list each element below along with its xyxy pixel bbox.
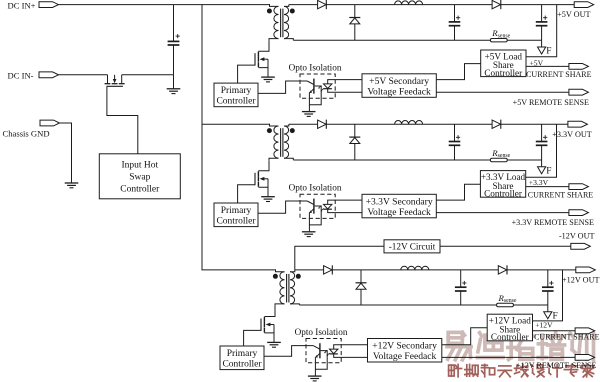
resistor Rsense +5V (490, 28, 510, 42)
label +5V current share volts (530, 58, 544, 67)
capacitor C21 filter (449, 124, 461, 160)
ground Q1 source (261, 77, 275, 82)
svg-text:Primary: Primary (227, 349, 258, 359)
wire +12V bottom rail (299, 304, 548, 306)
capacitor C_in input bulk cap (168, 5, 180, 75)
ground opto U1b emitter (302, 112, 316, 117)
wire +5V out to load share (526, 5, 557, 57)
wire feedback to load share +12V (442, 328, 487, 345)
svg-text:+3.3V Secondary: +3.3V Secondary (366, 196, 433, 207)
label +12V REMOTE SENSE (516, 361, 596, 370)
block +5V secondary voltage feedback (362, 74, 436, 98)
svg-text:CURRENT SHARE: CURRENT SHARE (534, 332, 600, 341)
connector -12V OUT (571, 243, 591, 249)
watermark Yi Di Tuo training text (decor recreated as shapes) (447, 332, 593, 377)
capacitor C32 output (542, 270, 554, 305)
wire +5V current share (526, 65, 569, 67)
svg-text:+12V REMOTE SENSE: +12V REMOTE SENSE (516, 361, 596, 370)
diode D31 rectifier (324, 265, 333, 274)
label DC IN- (8, 71, 34, 81)
transistor Q1 primary switch (255, 41, 269, 78)
diode D23 ORing (492, 120, 501, 129)
wire +3.3V bottom rail (293, 159, 541, 161)
svg-text:Controller: Controller (120, 185, 160, 195)
wire +3.3V secondary top rail (289, 123, 568, 125)
wire +5V secondary top rail (289, 4, 574, 6)
diode D13 ORing (492, 0, 501, 9)
diode D12 freewheel (349, 5, 360, 41)
label +3.3V OUT (552, 130, 592, 139)
diode D21 rectifier (318, 120, 327, 129)
svg-text:CURRENT SHARE: CURRENT SHARE (528, 191, 594, 200)
inductor L2 output filter (395, 121, 423, 125)
capacitor C31 filter (455, 270, 467, 305)
label CURRENT SHARE +12V (534, 332, 600, 341)
svg-text:Controller: Controller (484, 189, 522, 199)
ground input return (167, 89, 181, 94)
label +3.3V current share volts (529, 178, 549, 187)
wire +3.3V remote sense (436, 212, 569, 214)
transistor Q2 primary switch (255, 160, 269, 197)
label +3.3V REMOTE SENSE (512, 218, 594, 227)
svg-text:Primary: Primary (221, 206, 252, 216)
label CURRENT SHARE +5V (526, 70, 592, 79)
wire T3 secondary tap to -12V circuit (295, 246, 384, 270)
svg-text:+5V Secondary: +5V Secondary (369, 76, 429, 87)
label CURRENT SHARE +3.3V (528, 191, 594, 200)
wire Q1 gate (238, 65, 255, 83)
wire Q2 gate (238, 185, 255, 203)
svg-text:F: F (546, 167, 551, 177)
svg-text:Primary: Primary (221, 86, 252, 96)
wire +5V bottom rail (293, 39, 541, 41)
svg-text:Opto Isolation: Opto Isolation (289, 62, 342, 72)
label +5V OUT (557, 10, 590, 19)
node F feedback point +12V (544, 305, 558, 322)
label DC IN+ (8, 0, 36, 10)
capacitor C11 filter (449, 5, 461, 41)
ground chassis (65, 183, 79, 188)
svg-text:Voltage Feedack: Voltage Feedack (373, 351, 437, 362)
wire chassis gnd (60, 123, 72, 183)
svg-text:+5V OUT: +5V OUT (557, 10, 590, 19)
wire Q4 gate to hot swap controller (107, 86, 138, 154)
svg-text:Controller: Controller (491, 332, 529, 342)
label opto isolation +12V (295, 327, 348, 337)
svg-text:Chassis GND: Chassis GND (3, 129, 50, 139)
svg-text:+5V: +5V (530, 58, 544, 67)
wire Q4 drain to input cap node (122, 74, 174, 76)
wire Q3 gate (244, 330, 261, 346)
diode D11 rectifier (318, 0, 327, 9)
resistor Rsense +12V (497, 293, 517, 307)
block +5V load share controller (481, 50, 526, 78)
transformer T1 (267, 5, 295, 41)
block +12V load share controller (487, 314, 532, 342)
svg-text:Input Hot: Input Hot (121, 161, 158, 171)
connector +5V current share (569, 64, 589, 70)
opto-isolator U3b phototransistor (313, 343, 327, 376)
opto-isolator U2b phototransistor (307, 199, 321, 232)
svg-text:Controller: Controller (222, 360, 262, 370)
opto-isolator U1b dashed box (300, 74, 335, 98)
node F feedback point +3.3V (538, 160, 552, 177)
wire DC IN+ bus vertical (202, 5, 276, 270)
diode D32 freewheel (356, 270, 367, 305)
connector +5V remote sense (569, 89, 589, 95)
svg-text:DC IN+: DC IN+ (8, 0, 36, 10)
capacitor C22 output (536, 124, 548, 160)
svg-text:-12V Circuit: -12V Circuit (389, 241, 436, 251)
svg-text:DC IN-: DC IN- (8, 71, 34, 81)
ground opto U2b emitter (302, 232, 316, 237)
svg-text:+5V REMOTE SENSE: +5V REMOTE SENSE (513, 98, 589, 107)
svg-text:+12V Secondary: +12V Secondary (372, 341, 437, 352)
connector +3.3V OUT (568, 121, 588, 127)
svg-text:Opto Isolation: Opto Isolation (295, 327, 348, 337)
block +12V secondary voltage feedback (368, 339, 442, 363)
block -12V circuit (384, 240, 440, 253)
label +5V REMOTE SENSE (513, 98, 589, 107)
diode D22 freewheel (349, 124, 360, 160)
wire DC IN- to Q4 source (59, 74, 108, 76)
wire DC IN+ rail (59, 4, 271, 6)
connector Chassis GND (40, 120, 60, 126)
opto-isolator U1b phototransistor (307, 79, 321, 112)
svg-text:F: F (546, 47, 551, 57)
resistor Rsense +3.3V (490, 148, 510, 162)
svg-text:Controller: Controller (216, 97, 256, 107)
capacitor C12 output (536, 5, 548, 41)
connector +12V OUT (576, 267, 596, 273)
svg-text:Opto Isolation: Opto Isolation (289, 183, 342, 193)
label +12V OUT (562, 276, 599, 285)
svg-text:Voltage Feedack: Voltage Feedack (367, 207, 431, 218)
label Chassis GND (3, 129, 50, 139)
inductor L1 output filter (395, 1, 423, 5)
ground Q3 source (267, 342, 281, 347)
wire +3.3V current share (526, 186, 569, 188)
label -12V OUT (559, 232, 595, 241)
svg-text:+3.3V: +3.3V (529, 178, 549, 187)
inductor L3 output filter (401, 266, 429, 270)
svg-text:+3.3V OUT: +3.3V OUT (552, 130, 592, 139)
svg-text:Controller: Controller (216, 217, 256, 227)
svg-text:F: F (553, 312, 558, 322)
svg-text:Swap: Swap (129, 173, 150, 183)
block U5 Input Hot Swap Controller (99, 154, 180, 199)
block primary controller U2a (214, 203, 258, 227)
connector DC IN- input (39, 72, 59, 78)
svg-text:CURRENT SHARE: CURRENT SHARE (526, 70, 592, 79)
diode D33 ORing (498, 265, 507, 274)
opto-isolator U2b LED (318, 200, 362, 213)
wire +12V current share (533, 330, 576, 332)
wire +3.3V out to load share (526, 124, 557, 177)
wire +12V remote sense (442, 356, 575, 358)
wire feedback to load share +5V (436, 64, 480, 80)
transformer T2 (267, 124, 295, 160)
wire +5V remote sense (436, 91, 569, 93)
svg-text:Voltage Feedack: Voltage Feedack (367, 86, 431, 97)
svg-text:+12V: +12V (535, 321, 553, 330)
wire feedback to load share +3.3V (436, 184, 480, 200)
connector +3.3V remote sense (569, 210, 589, 216)
svg-text:Controller: Controller (484, 68, 522, 78)
connector +12V current share (575, 328, 595, 334)
opto-isolator U1b LED (318, 80, 362, 93)
connector +5V OUT (574, 2, 594, 8)
connector +12V remote sense (575, 355, 595, 361)
wire +12V secondary top rail (295, 269, 576, 271)
opto-isolator U3b LED (324, 345, 367, 358)
block primary controller U1a (214, 83, 258, 107)
block +3.3V secondary voltage feedback (362, 194, 436, 218)
wire controller U1a to opto (258, 81, 307, 93)
ground Q2 source (261, 197, 275, 202)
block primary controller U3a (220, 346, 264, 370)
svg-text:+3.3V REMOTE SENSE: +3.3V REMOTE SENSE (512, 218, 594, 227)
svg-text:+12V OUT: +12V OUT (562, 276, 599, 285)
node F feedback point +5V (538, 40, 552, 57)
transistor Q4 input hot-swap MOSFET (105, 75, 125, 87)
ground opto U3b emitter (308, 376, 322, 381)
wire controller U2a to opto (258, 201, 307, 213)
block +3.3V load share controller (480, 171, 525, 199)
transistor Q3 primary switch (261, 306, 275, 343)
wire input cap to primary ground (173, 75, 175, 89)
label opto isolation +5V (289, 62, 342, 72)
opto-isolator U3b dashed box (306, 339, 341, 363)
wire -12V circuit to output (440, 245, 571, 247)
wire controller U3a to opto (264, 346, 313, 357)
connector +3.3V current share (569, 184, 589, 190)
transformer T3 (273, 270, 301, 306)
wire bus branch to T2 primary (202, 123, 270, 125)
connector DC IN+ input (39, 2, 59, 8)
svg-text:-12V OUT: -12V OUT (559, 232, 595, 241)
label +12V current share volts (535, 321, 553, 330)
label opto isolation +3.3V (289, 183, 342, 193)
opto-isolator U2b dashed box (300, 194, 335, 218)
wire +12V out to load share (533, 270, 563, 321)
